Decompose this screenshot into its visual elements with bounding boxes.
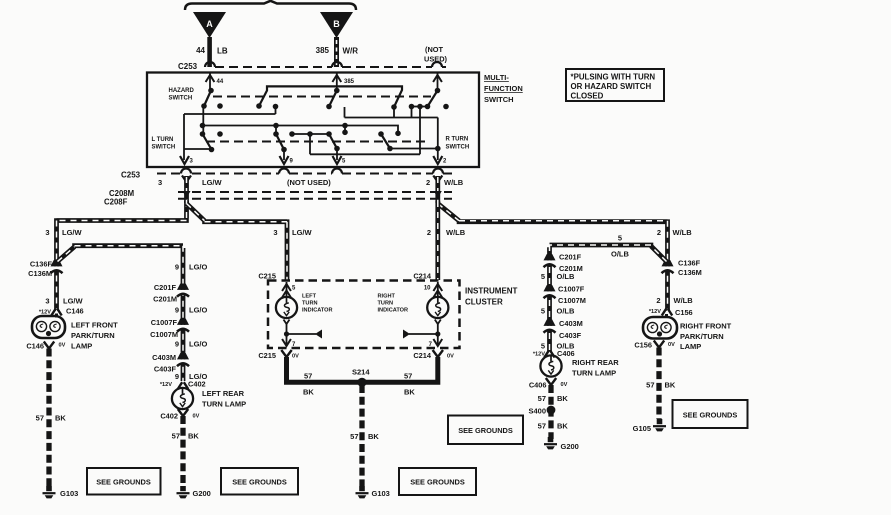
- svg-text:3: 3: [158, 178, 162, 187]
- svg-text:BK: BK: [665, 381, 676, 390]
- svg-text:G105: G105: [633, 424, 651, 433]
- svg-text:S214: S214: [352, 368, 370, 377]
- svg-text:LG/W: LG/W: [292, 228, 312, 237]
- left indicator output line with arrow: [282, 320, 322, 349]
- svg-text:SEE GROUNDS: SEE GROUNDS: [683, 411, 738, 420]
- svg-text:5: 5: [541, 342, 545, 351]
- connector A triangle: [193, 12, 226, 38]
- svg-text:C136F: C136F: [678, 259, 701, 268]
- svg-text:TURN LAMP: TURN LAMP: [572, 369, 616, 378]
- note box: pulsing with turn or hazard switch closed: [566, 69, 664, 101]
- stub on B1: [344, 126, 346, 133]
- svg-text:5: 5: [541, 307, 545, 316]
- svg-text:PARK/TURN: PARK/TURN: [680, 332, 724, 341]
- svg-text:2: 2: [656, 296, 660, 305]
- connector C214 0V below cluster: [413, 350, 454, 360]
- svg-text:0V: 0V: [668, 342, 675, 348]
- svg-text:C201F: C201F: [559, 253, 582, 262]
- connector C253 top dashed line with pin bumps: [178, 62, 446, 71]
- brace over connectors A and B: [185, 1, 356, 10]
- svg-text:SWITCH: SWITCH: [152, 145, 176, 151]
- svg-text:LG/W: LG/W: [63, 297, 83, 306]
- svg-text:9: 9: [175, 263, 179, 272]
- svg-text:BK: BK: [188, 432, 199, 441]
- svg-text:RIGHT REAR: RIGHT REAR: [572, 358, 619, 367]
- hazard blade 2 with top bus: [259, 86, 402, 107]
- svg-text:0V: 0V: [292, 354, 299, 360]
- svg-text:*12V: *12V: [533, 352, 545, 358]
- svg-text:0V: 0V: [561, 382, 568, 388]
- svg-text:57: 57: [304, 372, 312, 381]
- connector C215 0V below cluster: [258, 350, 299, 360]
- svg-text:BK: BK: [303, 388, 314, 397]
- 12V feed arrow C156 above right front lamp: [649, 296, 693, 317]
- svg-text:C403F: C403F: [559, 331, 582, 340]
- svg-text:C156: C156: [634, 341, 652, 350]
- svg-text:G200: G200: [193, 489, 211, 498]
- ground G200 left rear: [177, 486, 211, 498]
- pin 5 blade: [329, 134, 337, 149]
- wire 44 LB from A: [196, 37, 228, 67]
- C215 label at cluster top: [258, 272, 296, 292]
- BK wire to G103: [36, 349, 67, 487]
- svg-text:RIGHT: RIGHT: [378, 294, 396, 300]
- svg-text:SEE GROUNDS: SEE GROUNDS: [96, 478, 151, 487]
- contact bus row right: [412, 106, 428, 108]
- long vertical and H4 bus: [310, 107, 420, 155]
- svg-text:R TURN: R TURN: [446, 137, 469, 143]
- switch contact dots: [200, 88, 449, 153]
- 385 blade: [329, 91, 337, 107]
- left turn indicator bulb and pin lines: [276, 282, 333, 318]
- svg-text:(NOT USED): (NOT USED): [287, 178, 331, 187]
- svg-text:SEE GROUNDS: SEE GROUNDS: [410, 478, 465, 487]
- switch pin 9 exit: [280, 150, 294, 165]
- switch pin 2 exit: [433, 149, 447, 165]
- svg-text:BK: BK: [55, 414, 66, 423]
- connector C201F/C201M left chain: [153, 283, 190, 304]
- connector C402 0V below lamp: [160, 409, 199, 421]
- svg-text:*PULSING WITH TURN: *PULSING WITH TURN: [571, 73, 656, 82]
- svg-text:MULTI-: MULTI-: [484, 73, 509, 82]
- svg-text:SWITCH: SWITCH: [169, 96, 193, 102]
- svg-text:57: 57: [350, 432, 358, 441]
- svg-text:LEFT FRONT: LEFT FRONT: [71, 321, 118, 330]
- right front park/turn lamp: [643, 314, 732, 351]
- svg-text:C136M: C136M: [678, 268, 702, 277]
- INSTRUMENT CLUSTER label: [465, 287, 518, 307]
- svg-text:PARK/TURN: PARK/TURN: [71, 331, 115, 340]
- svg-text:LAMP: LAMP: [680, 342, 701, 351]
- BK wire from S214 to G103: [350, 385, 379, 486]
- connector C403M/C403F left chain: [152, 353, 190, 374]
- connector C136F/C136M right: [661, 259, 702, 278]
- BK wire to G200: [172, 416, 200, 486]
- mid row y134 link: [292, 133, 329, 135]
- MULTI-FUNCTION SWITCH label: [484, 73, 523, 104]
- left rear chain labels and connectors: [175, 263, 208, 272]
- svg-text:TURN LAMP: TURN LAMP: [202, 400, 246, 409]
- connector C403M/C403F right chain: [543, 319, 583, 340]
- svg-text:3: 3: [273, 228, 277, 237]
- svg-text:BK: BK: [368, 432, 379, 441]
- svg-text:OR HAZARD SWITCH: OR HAZARD SWITCH: [571, 82, 652, 91]
- svg-text:G200: G200: [561, 442, 579, 451]
- turn linkage dashed line: [206, 141, 428, 143]
- ground G103 center: [356, 486, 390, 498]
- svg-text:C406: C406: [557, 349, 575, 358]
- svg-text:G103: G103: [60, 489, 78, 498]
- svg-text:O/LB: O/LB: [557, 307, 575, 316]
- svg-text:44: 44: [196, 46, 205, 55]
- svg-text:LAMP: LAMP: [71, 342, 92, 351]
- wire LG/W trunk left to left front: [45, 201, 188, 311]
- svg-text:C403M: C403M: [559, 319, 583, 328]
- svg-text:0V: 0V: [59, 343, 66, 349]
- svg-text:57: 57: [538, 394, 546, 403]
- svg-text:C406: C406: [529, 381, 547, 390]
- svg-text:3: 3: [45, 228, 49, 237]
- svg-text:C136M: C136M: [28, 269, 52, 278]
- svg-text:5: 5: [618, 234, 622, 243]
- see grounds box 1: [87, 468, 161, 495]
- svg-text:C1007F: C1007F: [151, 318, 178, 327]
- svg-text:BK: BK: [557, 422, 568, 431]
- 12V feed arrow C402: [160, 380, 206, 390]
- wire LG/O branch from C136 to left rear chain: [58, 246, 184, 381]
- svg-text:10: 10: [424, 286, 431, 292]
- stub d15-d19: [275, 126, 277, 135]
- svg-text:FUNCTION: FUNCTION: [484, 84, 523, 93]
- svg-text:LG/W: LG/W: [62, 228, 82, 237]
- left front park/turn lamp: [32, 314, 118, 351]
- svg-text:G103: G103: [372, 489, 390, 498]
- multi-function switch box: [147, 73, 479, 168]
- svg-text:C136F: C136F: [30, 260, 53, 269]
- see grounds box 3: [399, 468, 476, 495]
- svg-text:C214: C214: [413, 351, 432, 360]
- svg-text:SEE GROUNDS: SEE GROUNDS: [232, 478, 287, 487]
- 12V feed arrow C406: [533, 349, 575, 358]
- wire 385 W/R from B: [316, 37, 359, 67]
- connector C136F/C136M left: [28, 260, 63, 279]
- switch not-used pin entry: [433, 73, 442, 89]
- svg-text:57: 57: [646, 381, 654, 390]
- svg-text:LEFT REAR: LEFT REAR: [202, 389, 245, 398]
- svg-text:HAZARD: HAZARD: [169, 88, 195, 94]
- H1 bus with taps: [345, 107, 438, 149]
- svg-text:5: 5: [541, 272, 545, 281]
- see grounds box 2: [221, 468, 298, 495]
- svg-text:C403F: C403F: [154, 365, 177, 374]
- switch pin 44 entry: [206, 73, 224, 89]
- pin 9 blade: [276, 134, 284, 150]
- svg-text:9: 9: [175, 372, 179, 381]
- svg-text:O/LB: O/LB: [611, 250, 629, 259]
- bus B1 mid horizontal: [203, 126, 399, 134]
- svg-text:2: 2: [657, 228, 661, 237]
- svg-text:C215: C215: [258, 351, 276, 360]
- svg-text:CLUSTER: CLUSTER: [465, 298, 503, 307]
- svg-text:C214: C214: [413, 272, 432, 281]
- svg-text:TURN: TURN: [302, 301, 318, 307]
- right indicator output line with arrow: [403, 320, 442, 349]
- svg-text:W/LB: W/LB: [444, 178, 464, 187]
- svg-text:RIGHT FRONT: RIGHT FRONT: [680, 322, 732, 331]
- svg-text:LEFT: LEFT: [302, 294, 317, 300]
- svg-text:44: 44: [217, 79, 224, 85]
- svg-text:LG/W: LG/W: [202, 178, 222, 187]
- svg-text:*12V: *12V: [160, 382, 172, 388]
- 12V feed arrow C146 above left front lamp: [39, 297, 84, 316]
- see grounds box 4: [448, 416, 523, 445]
- switch pin 385 entry: [332, 73, 354, 89]
- connector C1007F/C1007M left chain: [150, 318, 190, 339]
- wire: blade to L-turn column: [202, 106, 204, 134]
- svg-text:0V: 0V: [447, 354, 454, 360]
- svg-text:W/LB: W/LB: [446, 228, 466, 237]
- svg-text:C403M: C403M: [152, 353, 176, 362]
- hazard switch blade (pin 44): [204, 91, 211, 107]
- svg-text:LG/O: LG/O: [189, 263, 207, 272]
- svg-text:57: 57: [404, 372, 412, 381]
- svg-text:C1007M: C1007M: [558, 296, 586, 305]
- svg-text:O/LB: O/LB: [557, 272, 575, 281]
- connector C201F/C201M right chain: [543, 253, 583, 274]
- wire W/LB trunk right to right front: [427, 204, 692, 312]
- svg-text:(NOT: (NOT: [425, 45, 444, 54]
- svg-text:C253: C253: [178, 62, 198, 71]
- svg-text:C402: C402: [188, 380, 206, 389]
- svg-text:BK: BK: [557, 394, 568, 403]
- svg-text:INDICATOR: INDICATOR: [378, 308, 409, 314]
- BK wires from cluster to splice S214: [287, 357, 438, 397]
- switch pin 3 exit: [180, 149, 194, 165]
- svg-text:INSTRUMENT: INSTRUMENT: [465, 287, 518, 296]
- (NOT USED) top label: [424, 45, 448, 64]
- svg-text:3: 3: [45, 297, 49, 306]
- connector C146 0V below lamp: [26, 342, 65, 351]
- svg-text:B: B: [333, 19, 340, 29]
- H3 to pin 2: [390, 148, 438, 150]
- svg-text:C1007F: C1007F: [558, 285, 585, 294]
- svg-text:W/LB: W/LB: [673, 228, 693, 237]
- BK wire with splice S400: [528, 385, 568, 439]
- svg-text:9: 9: [175, 306, 179, 315]
- wire LG/W branch to cluster C215: [187, 204, 313, 281]
- see grounds box 5: [673, 400, 748, 428]
- svg-text:A: A: [206, 19, 213, 29]
- svg-text:57: 57: [538, 422, 546, 431]
- instrument cluster dashed box: [268, 281, 460, 349]
- svg-text:W/R: W/R: [343, 47, 359, 56]
- ground G105: [633, 419, 666, 433]
- svg-text:2: 2: [426, 178, 430, 187]
- svg-text:385: 385: [316, 46, 330, 55]
- svg-text:0V: 0V: [193, 414, 200, 420]
- svg-text:L TURN: L TURN: [152, 137, 174, 143]
- svg-text:CLOSED: CLOSED: [571, 92, 604, 101]
- connector C406 0V below lamp: [529, 378, 568, 390]
- svg-text:LG/O: LG/O: [189, 306, 207, 315]
- hazard linkage dashed line: [213, 96, 431, 98]
- wire pin3 LG/W to C208: [158, 176, 222, 203]
- svg-text:57: 57: [172, 432, 180, 441]
- svg-text:C201M: C201M: [153, 295, 177, 304]
- svg-text:C201F: C201F: [154, 283, 177, 292]
- bus T2 to pin3 loop: [184, 107, 276, 150]
- connector C208M / C208F double dashed lines: [104, 189, 452, 207]
- svg-text:LB: LB: [217, 47, 228, 56]
- svg-text:C146: C146: [26, 342, 44, 351]
- wire pin2 W/LB to C208: [426, 176, 464, 203]
- L turn blade (pin 3): [203, 134, 212, 150]
- right turn indicator bulb and pin lines: [378, 282, 449, 318]
- svg-text:C402: C402: [160, 412, 178, 421]
- svg-text:INDICATOR: INDICATOR: [302, 308, 333, 314]
- connector C1007F/C1007M right chain: [543, 285, 586, 306]
- svg-text:C1007M: C1007M: [150, 330, 178, 339]
- svg-text:S400: S400: [528, 407, 546, 416]
- ground G200 right rear: [544, 437, 579, 451]
- svg-text:C208F: C208F: [104, 198, 128, 207]
- left rear turn lamp bulb: [172, 388, 246, 409]
- svg-text:TURN: TURN: [378, 301, 394, 307]
- svg-text:9: 9: [175, 340, 179, 349]
- svg-text:BK: BK: [404, 388, 415, 397]
- C214 label at cluster top: [413, 272, 432, 292]
- svg-text:*12V: *12V: [39, 310, 51, 316]
- svg-text:C215: C215: [258, 272, 276, 281]
- svg-text:SEE GROUNDS: SEE GROUNDS: [458, 426, 513, 435]
- svg-text:*12V: *12V: [649, 309, 661, 315]
- wire W/LB down to cluster C214: [435, 201, 440, 280]
- right rear turn lamp bulb: [540, 355, 619, 377]
- svg-text:C146: C146: [66, 307, 84, 316]
- svg-text:57: 57: [36, 414, 44, 423]
- svg-text:W/LB: W/LB: [674, 296, 694, 305]
- svg-text:385: 385: [344, 79, 355, 85]
- svg-text:C156: C156: [675, 308, 693, 317]
- svg-text:C253: C253: [121, 171, 141, 180]
- wire O/LB branch from C136 to right rear chain: [550, 234, 667, 352]
- right hazard blade to not-used pin: [428, 91, 438, 107]
- svg-text:SWITCH: SWITCH: [446, 145, 470, 151]
- connector C156 0V below lamp: [634, 341, 675, 350]
- connector C253 lower dashed line: [121, 169, 452, 183]
- ground G103 left: [43, 486, 79, 498]
- switch pin 5 exit: [333, 149, 347, 165]
- BK wire to G105: [646, 348, 676, 420]
- svg-text:LG/O: LG/O: [189, 340, 207, 349]
- svg-text:SWITCH: SWITCH: [484, 95, 514, 104]
- connector B triangle: [320, 12, 353, 38]
- svg-text:2: 2: [427, 228, 431, 237]
- R turn blade: [381, 134, 390, 149]
